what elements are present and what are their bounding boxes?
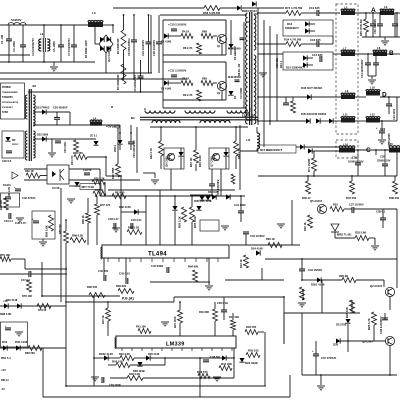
diode D55	[212, 194, 216, 199]
svg-text:R40 1K: R40 1K	[101, 315, 105, 324]
wire	[355, 53, 373, 55]
diode D15	[300, 144, 304, 149]
svg-text:R22: R22	[333, 203, 338, 207]
resistor R56	[182, 207, 187, 222]
wire	[0, 347, 66, 349]
diode D202	[104, 355, 108, 360]
svg-text:R30 1K: R30 1K	[303, 222, 307, 231]
ground	[91, 376, 99, 378]
svg-text:L12: L12	[370, 113, 375, 117]
wire	[33, 124, 90, 126]
svg-text:ZL1 5A/500V: ZL1 5A/500V	[107, 46, 111, 62]
wire	[87, 198, 89, 213]
svg-text:L10: L10	[370, 86, 375, 90]
transistor Q6	[167, 153, 174, 160]
wire	[225, 279, 284, 281]
capacitor C47	[28, 271, 30, 277]
diode D7	[178, 152, 183, 156]
svg-text:C44 1000: C44 1000	[234, 203, 246, 207]
svg-text:C5 .22M: C5 .22M	[52, 41, 56, 52]
wire	[357, 150, 359, 163]
svg-text:D30: D30	[333, 343, 339, 347]
wire	[160, 14, 247, 16]
wire	[235, 127, 237, 141]
wire	[233, 348, 235, 378]
ground	[371, 245, 379, 247]
svg-text:C4 0.022/275V: C4 0.022/275V	[31, 38, 35, 56]
wire	[168, 35, 181, 37]
svg-text:R79 56: R79 56	[38, 308, 47, 312]
svg-text:C3 .22M: C3 .22M	[12, 41, 16, 52]
svg-text:R58 3.3/0.5W: R58 3.3/0.5W	[203, 11, 220, 15]
svg-text:ZD6.2: ZD6.2	[113, 144, 117, 152]
diode D35b	[16, 345, 20, 350]
diode D29	[239, 358, 244, 362]
wire	[42, 295, 120, 297]
capacitor C18	[209, 183, 215, 185]
U4 pins	[121, 348, 123, 351]
svg-text:R56 5.1K: R56 5.1K	[178, 216, 182, 228]
svg-text:FR107: FR107	[12, 144, 19, 146]
diode D9b	[252, 1, 256, 6]
wire	[302, 279, 317, 281]
ground	[151, 179, 159, 181]
wire	[33, 138, 42, 140]
svg-text:R48 2.2K: R48 2.2K	[129, 372, 140, 376]
svg-text:B3: B3	[131, 116, 135, 120]
wire	[313, 151, 315, 158]
svg-text:R38 300: R38 300	[389, 196, 400, 200]
svg-text:C8 220U/200V: C8 220U/200V	[127, 38, 131, 56]
diode D47	[329, 118, 333, 123]
wire	[301, 259, 303, 269]
svg-text:D46 OUT FR303: D46 OUT FR303	[301, 86, 322, 90]
component box	[1, 193, 20, 207]
svg-text:R76 10K: R76 10K	[0, 253, 10, 257]
ground	[53, 62, 55, 66]
svg-text:D22 5806: D22 5806	[37, 133, 49, 137]
wire	[140, 60, 142, 76]
wire	[110, 377, 127, 379]
svg-text:R23 1K: R23 1K	[239, 259, 243, 268]
svg-text:C7 0.022/275V: C7 0.022/275V	[67, 38, 71, 56]
svg-text:D1 414B: D1 414B	[161, 40, 171, 44]
svg-text:D201 414B: D201 414B	[311, 283, 325, 287]
capacitor C32	[5, 196, 11, 198]
wire	[113, 7, 204, 9]
svg-text:R47 52K: R47 52K	[229, 315, 239, 319]
component box	[1, 322, 28, 347]
wire	[336, 140, 358, 158]
svg-text:C47 0.1: C47 0.1	[21, 278, 31, 282]
wire	[302, 374, 397, 376]
resistor R55	[190, 207, 195, 222]
svg-text:R41 100: R41 100	[136, 325, 146, 329]
svg-text:C19 845: C19 845	[309, 6, 320, 10]
wire	[170, 169, 172, 190]
op-amp U1 TL494	[102, 245, 229, 258]
wire	[291, 200, 293, 245]
diode D3	[228, 44, 233, 48]
transformer T2 primary	[25, 95, 27, 119]
wire	[355, 120, 366, 122]
wire	[213, 82, 217, 84]
svg-text:C23: C23	[380, 127, 386, 131]
svg-text:C1 .1M: C1 .1M	[0, 34, 4, 44]
wire	[0, 273, 29, 275]
svg-text:C36 0.1H: C36 0.1H	[217, 301, 228, 305]
component box	[32, 211, 55, 239]
svg-text:R81 5.1: R81 5.1	[1, 356, 11, 360]
wire	[296, 146, 300, 148]
svg-text:U3 06: U3 06	[52, 186, 60, 190]
wire	[243, 22, 245, 108]
U1 pins	[107, 258, 109, 262]
shunt U5 TL431	[74, 182, 79, 186]
svg-text:R20 455B: R20 455B	[112, 168, 115, 179]
svg-text:C25 1000U/10V: C25 1000U/10V	[133, 140, 136, 158]
transistor Q2	[217, 81, 226, 90]
wire	[105, 53, 107, 73]
svg-text:C33 50: C33 50	[83, 168, 92, 172]
wire	[66, 385, 266, 387]
svg-text:D15 MBR2045CT: D15 MBR2045CT	[260, 148, 283, 152]
transistor Q1	[217, 34, 226, 43]
svg-text:L6: L6	[384, 5, 388, 9]
standby info box	[1, 83, 25, 119]
diode D33	[17, 303, 21, 308]
wire	[355, 12, 380, 14]
shunt U2 TL431	[331, 224, 339, 231]
wire	[60, 25, 62, 45]
diode D8	[223, 152, 228, 156]
wire	[56, 120, 58, 125]
svg-text:D2 414B: D2 414B	[161, 87, 171, 91]
svg-text:D35 4148: D35 4148	[15, 340, 28, 344]
wire	[108, 364, 116, 366]
wire	[22, 25, 24, 45]
component box D6	[2, 131, 24, 158]
svg-text:R58 1K: R58 1K	[81, 215, 85, 224]
wire	[150, 281, 210, 283]
svg-text:L2: L2	[40, 32, 44, 36]
svg-text:C32 470UF: C32 470UF	[22, 196, 36, 200]
svg-text:R71 15/2W: R71 15/2W	[307, 158, 311, 172]
wire	[107, 302, 109, 308]
capacitor C12	[235, 79, 240, 81]
svg-text:L3: L3	[92, 11, 96, 15]
svg-text:R55 5.1K: R55 5.1K	[193, 216, 197, 228]
ground	[67, 198, 75, 200]
optocoupler U3	[47, 165, 69, 184]
svg-text:R78 10K: R78 10K	[22, 294, 32, 298]
svg-text:L11: L11	[343, 113, 348, 117]
rectifier D12 box	[283, 20, 333, 36]
svg-text:KA431: KA431	[3, 184, 11, 187]
wire	[94, 357, 104, 359]
svg-text:R3 330K/1W: R3 330K/1W	[116, 74, 120, 90]
svg-text:C40 0.01: C40 0.01	[131, 218, 142, 222]
capacitor C21b	[6, 150, 12, 152]
wire	[365, 13, 367, 19]
wire	[33, 111, 42, 113]
svg-text:+C11 2.2U/50V: +C11 2.2U/50V	[168, 69, 187, 73]
wire	[28, 91, 163, 93]
diode D9	[237, 5, 241, 10]
capacitor C29b	[101, 377, 103, 383]
svg-text:MDY TL431: MDY TL431	[82, 186, 96, 189]
transistor Q7	[212, 153, 219, 160]
svg-text:C13 220R: C13 220R	[240, 88, 243, 99]
svg-text:R37 500: R37 500	[346, 196, 357, 200]
svg-text:+5V: +5V	[3, 299, 8, 303]
resistor R27	[300, 287, 305, 300]
wire	[258, 53, 283, 55]
wire	[256, 127, 258, 133]
diode D32b	[4, 303, 8, 308]
wire	[396, 97, 398, 121]
wire	[367, 54, 369, 63]
svg-text:R89 6.2K: R89 6.2K	[72, 234, 83, 238]
svg-text:C26 4050UF: C26 4050UF	[53, 106, 68, 110]
svg-text:C38 561: C38 561	[210, 355, 221, 359]
diode D15 label	[258, 145, 296, 153]
svg-text:R83 500: R83 500	[87, 285, 98, 289]
wire	[43, 25, 45, 38]
svg-text:C34 1U/50V: C34 1U/50V	[250, 234, 265, 238]
svg-text:C48 0.47: C48 0.47	[108, 217, 119, 221]
svg-text:L9: L9	[345, 89, 349, 93]
svg-text:R27 10K: R27 10K	[301, 289, 305, 300]
ground	[320, 375, 322, 385]
ground	[371, 76, 373, 79]
wire	[321, 280, 323, 313]
resistor R28	[350, 300, 355, 313]
svg-text:B2: B2	[33, 84, 37, 88]
resistor R37	[350, 181, 355, 194]
wire	[355, 149, 389, 151]
svg-text:Q2 A1015: Q2 A1015	[370, 284, 383, 288]
resistor R86	[49, 215, 54, 231]
svg-text:R4 1K: R4 1K	[182, 30, 189, 34]
wire	[41, 262, 43, 296]
svg-text:+C10 2.2U/50V: +C10 2.2U/50V	[168, 23, 187, 27]
wire	[65, 220, 67, 231]
svg-text:RB6 5.6K: RB6 5.6K	[0, 312, 12, 316]
svg-text:Q7 C945: Q7 C945	[210, 156, 214, 167]
svg-text:R86 5.6K: R86 5.6K	[45, 225, 49, 237]
svg-text:PS RESET: PS RESET	[2, 107, 13, 109]
svg-text:R9 2.7K: R9 2.7K	[183, 93, 193, 97]
svg-text:R88 5.1K: R88 5.1K	[128, 226, 139, 230]
wire	[396, 259, 398, 288]
svg-text:D35 D36 4148: D35 D36 4148	[194, 199, 212, 203]
wire	[96, 196, 98, 204]
svg-text:C46 4.7U: C46 4.7U	[15, 221, 26, 225]
svg-text:R49 560: R49 560	[73, 151, 83, 155]
svg-text:L8: L8	[377, 46, 381, 50]
svg-text:C34 16/50V: C34 16/50V	[308, 268, 322, 272]
wire	[158, 15, 160, 42]
wire	[8, 25, 10, 39]
capacitor C29c	[55, 140, 61, 142]
svg-text:R29 4.7K: R29 4.7K	[8, 187, 11, 197]
transformer B3 bottom winding	[152, 120, 180, 123]
wire	[396, 13, 398, 37]
wire	[381, 121, 383, 131]
svg-text:R2 100K/1W: R2 100K/1W	[116, 38, 120, 54]
svg-text:5A250V: 5A250V	[11, 18, 22, 22]
svg-text:R65 470/0.5W: R65 470/0.5W	[359, 19, 363, 36]
svg-text:R45 100K: R45 100K	[173, 316, 177, 328]
wire	[133, 15, 135, 40]
resistor R78	[27, 280, 32, 292]
diode D14	[303, 55, 307, 60]
wire	[168, 82, 181, 84]
svg-text:STANDBY: STANDBY	[2, 96, 13, 99]
transformer T1 core	[249, 12, 251, 125]
svg-text:DN: DN	[12, 140, 16, 142]
svg-text:R67 4K: R67 4K	[189, 158, 193, 167]
svg-text:R50 100: R50 100	[248, 349, 259, 353]
svg-text:Q5 A1015: Q5 A1015	[310, 199, 323, 203]
ground	[221, 225, 229, 227]
wire	[69, 185, 80, 187]
svg-text:D21 FR403: D21 FR403	[36, 106, 50, 110]
diode D2	[164, 80, 168, 85]
wire	[356, 279, 384, 281]
diode D35	[172, 206, 177, 210]
svg-text:R62 2.7K: R62 2.7K	[149, 148, 153, 159]
resistor R36	[306, 181, 311, 194]
svg-text:C9 2200/200V: C9 2200/200V	[133, 75, 137, 92]
wire	[382, 209, 384, 218]
diode D34	[3, 345, 7, 350]
svg-text:C28 0.1: C28 0.1	[376, 210, 386, 214]
ground	[208, 258, 210, 285]
shunt KA431	[12, 172, 18, 179]
wire	[145, 196, 147, 245]
svg-text:C15 681: C15 681	[275, 58, 279, 68]
wire	[93, 296, 95, 386]
svg-text:Q6 C945: Q6 C945	[165, 156, 169, 167]
resistor R38	[393, 181, 398, 194]
svg-text:D24 4148: D24 4148	[251, 247, 263, 251]
wire	[195, 127, 197, 150]
wire	[87, 156, 106, 158]
capacitor C34b	[299, 268, 305, 270]
wire	[220, 7, 237, 9]
svg-text:C22 2200: C22 2200	[392, 108, 396, 120]
svg-text:R94 680: R94 680	[188, 265, 199, 269]
svg-text:C20 1U/250V: C20 1U/250V	[152, 40, 156, 56]
wire	[0, 24, 88, 26]
transformer T2 secondary	[33, 95, 35, 126]
ground	[378, 139, 386, 141]
svg-text:D202 4148: D202 4148	[99, 352, 113, 356]
wire	[315, 341, 317, 354]
wire	[211, 169, 213, 184]
wire	[148, 15, 150, 42]
wire	[11, 258, 25, 260]
resistor R22	[330, 207, 344, 212]
svg-text:C16 0.1: C16 0.1	[4, 219, 14, 223]
svg-text:R69: R69	[202, 77, 207, 81]
svg-text:C16 845: C16 845	[310, 38, 321, 42]
svg-text:R8 2.7K: R8 2.7K	[183, 46, 193, 50]
svg-text:POWER: POWER	[2, 87, 11, 89]
diode D28	[137, 362, 142, 366]
svg-text:D29 494B: D29 494B	[245, 361, 258, 365]
wire	[334, 232, 336, 238]
wire	[143, 172, 155, 174]
resistor R25	[372, 312, 377, 325]
wire	[95, 43, 99, 45]
svg-text:D34: D34	[2, 340, 8, 344]
wire	[307, 176, 309, 181]
svg-text:R31 1: R31 1	[279, 61, 283, 68]
zener ZD1	[117, 140, 122, 144]
wire	[232, 330, 234, 336]
op-amp U4 LM339	[116, 336, 236, 348]
svg-text:R80 12: R80 12	[1, 379, 9, 382]
svg-text:ZD 5.1: ZD 5.1	[90, 135, 98, 138]
ground	[298, 302, 306, 304]
svg-text:L13: L13	[246, 139, 251, 142]
wire	[162, 20, 164, 108]
svg-text:R28 10K: R28 10K	[345, 307, 349, 318]
svg-text:R62 1K: R62 1K	[25, 169, 34, 173]
svg-text:R68: R68	[202, 30, 207, 34]
svg-text:R84 620: R84 620	[116, 284, 127, 288]
svg-text:R26 9K: R26 9K	[339, 274, 348, 278]
wire	[263, 20, 265, 147]
wire	[108, 189, 235, 191]
svg-text:5VSB: 5VSB	[2, 112, 8, 114]
wire	[40, 175, 47, 177]
ground	[161, 321, 169, 323]
svg-text:R42 3.9K: R42 3.9K	[119, 352, 130, 356]
resistor R20	[116, 164, 121, 177]
svg-text:D3 HER307: D3 HER307	[233, 46, 237, 60]
svg-text:MRD TL431: MRD TL431	[337, 233, 352, 237]
diode D11	[199, 196, 204, 200]
svg-text:D14 S30D40CT: D14 S30D40CT	[286, 66, 305, 70]
rectifier D14 box	[283, 52, 333, 70]
resistor R58	[204, 6, 220, 11]
wire	[388, 97, 390, 104]
diode D6	[5, 137, 10, 141]
wire	[344, 208, 352, 210]
resistor R82	[28, 346, 42, 351]
svg-text:-5V: -5V	[1, 388, 5, 391]
transformer T1 secondary	[254, 15, 256, 50]
wire	[225, 20, 227, 35]
wire	[258, 12, 286, 14]
capacitor C25	[128, 141, 134, 143]
svg-text:R33 5.6K: R33 5.6K	[355, 231, 366, 235]
resistor R24	[74, 140, 79, 152]
svg-text:C43 0.01: C43 0.01	[119, 272, 130, 276]
wire	[0, 78, 187, 80]
svg-text:D4: D4	[233, 95, 237, 99]
diode D4	[228, 91, 233, 95]
wire	[372, 13, 374, 24]
svg-text:R25 4.7K: R25 4.7K	[367, 318, 371, 330]
capacitor C31b	[15, 188, 21, 190]
ground	[42, 239, 44, 241]
wire	[103, 24, 113, 26]
